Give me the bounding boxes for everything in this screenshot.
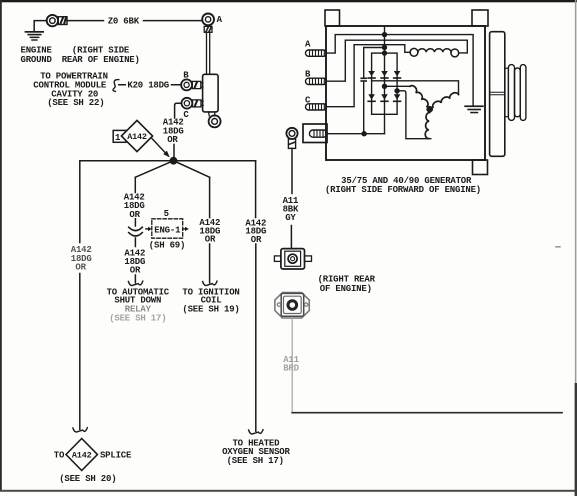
wire main horizontal bus bbox=[80, 160, 256, 162]
svg-text:(SEE SH 19): (SEE SH 19) bbox=[182, 304, 239, 314]
connector off-page ignition bbox=[203, 281, 217, 285]
generator body bbox=[326, 26, 485, 160]
svg-text:Z0 6BK: Z0 6BK bbox=[108, 16, 140, 26]
arrow splice to junction bbox=[152, 138, 166, 153]
terminal stud C bbox=[306, 104, 327, 110]
svg-text:A: A bbox=[217, 15, 223, 25]
svg-text:B: B bbox=[183, 70, 189, 80]
field winding rotor coil bbox=[418, 49, 451, 53]
terminal A eyelet bbox=[202, 14, 214, 26]
diode D2 bbox=[380, 71, 388, 79]
svg-text:BRD: BRD bbox=[283, 363, 299, 373]
pulley hub bbox=[505, 68, 509, 117]
wire Z0 6BK bbox=[67, 20, 202, 22]
stator coil upper left bbox=[410, 84, 430, 106]
eyelet terminal A11 bbox=[286, 128, 297, 149]
splice symbol A142 bottom diamond bbox=[66, 439, 97, 471]
terminal stud A bbox=[306, 50, 327, 56]
wire diagonal to ASD branch bbox=[135, 161, 173, 178]
pulley bracket bbox=[490, 32, 505, 157]
wire ground to eyelet bbox=[34, 21, 46, 31]
output terminal box bbox=[303, 124, 327, 143]
border frame bottom bbox=[0, 490, 577, 492]
border frame top bbox=[0, 0, 577, 2]
wire K20 18DG bbox=[119, 84, 181, 86]
svg-text:(SEE SH 20): (SEE SH 20) bbox=[59, 474, 116, 484]
stator winding center node bbox=[426, 106, 433, 113]
connector off-page ASD bbox=[128, 281, 142, 285]
svg-text:OR: OR bbox=[129, 210, 140, 220]
eyelet terminal B bbox=[181, 79, 203, 90]
svg-text:OR: OR bbox=[205, 235, 216, 245]
arrow right of ENG-1 bbox=[183, 228, 186, 230]
wire middle row to stator bbox=[385, 85, 410, 87]
wire B stud internal to right brush bbox=[327, 40, 468, 81]
eyelet terminal engine ground bbox=[47, 15, 67, 26]
eyelet lower of connector body bbox=[209, 115, 221, 127]
wire C stud internal to left brush bbox=[327, 45, 411, 107]
brush left bbox=[410, 48, 418, 56]
terminal stud B bbox=[306, 78, 327, 84]
wire heated oxygen sensor branch bbox=[255, 161, 257, 432]
wire diagonal to ignition branch bbox=[174, 161, 210, 178]
stator coil upper right bbox=[431, 91, 458, 107]
node dot capacitor line bbox=[382, 45, 387, 50]
artifact mark bbox=[555, 246, 561, 248]
node dot box top bbox=[382, 50, 387, 55]
crimp below terminal A bbox=[204, 26, 212, 32]
splice symbol A142 diamond bbox=[121, 120, 152, 151]
svg-text:(SEE SH 17): (SEE SH 17) bbox=[109, 313, 166, 323]
neck to lower eyelet bbox=[209, 112, 215, 116]
connector body block bbox=[203, 74, 219, 112]
svg-text:(RIGHT SIDE FORWARD OF ENGINE): (RIGHT SIDE FORWARD OF ENGINE) bbox=[325, 185, 481, 195]
diode D5 bbox=[380, 94, 388, 102]
pulley sheave 2 bbox=[515, 68, 521, 117]
generator mounting tab bottom right bbox=[473, 160, 488, 175]
diode D1 bbox=[367, 71, 375, 79]
svg-text:OR: OR bbox=[130, 265, 141, 275]
node dot stud line bbox=[361, 131, 366, 136]
connector index ENG-1 bbox=[152, 219, 183, 238]
brush right bbox=[451, 49, 459, 57]
svg-text:OF ENGINE): OF ENGINE) bbox=[320, 284, 372, 294]
svg-text:REAR OF ENGINE): REAR OF ENGINE) bbox=[62, 55, 140, 65]
svg-text:(SEE SH 22): (SEE SH 22) bbox=[47, 98, 104, 108]
svg-text:A142: A142 bbox=[72, 451, 92, 461]
connector off-page oxygen sensor bbox=[249, 430, 263, 434]
pulley sheave 3 bbox=[520, 65, 526, 121]
wire A stud internal bbox=[327, 35, 474, 106]
connector off-page A142 splice bbox=[73, 428, 87, 432]
svg-text:GROUND: GROUND bbox=[21, 55, 53, 65]
node dot middle row bbox=[382, 84, 387, 89]
wire terminal C down to splice junction bbox=[175, 103, 182, 118]
svg-text:GY: GY bbox=[285, 213, 296, 223]
svg-text:TO: TO bbox=[54, 451, 65, 461]
svg-text:OR: OR bbox=[167, 135, 178, 145]
wire ASD relay branch bbox=[134, 177, 136, 282]
node dot line1 bbox=[382, 32, 387, 37]
wire capacitor branch bbox=[364, 48, 385, 134]
node junction dot A142 bbox=[170, 157, 178, 165]
wire middle column through rectifier bbox=[384, 53, 386, 134]
svg-text:(SH 69): (SH 69) bbox=[149, 241, 185, 251]
svg-text:OR: OR bbox=[251, 235, 262, 245]
brace to K20 bbox=[113, 80, 119, 92]
wire left branch to A142 splice bbox=[79, 161, 81, 430]
wire stud terminal A to connector body bbox=[207, 32, 210, 74]
wire A11 BRD faded bbox=[291, 318, 293, 413]
svg-text:A142: A142 bbox=[127, 132, 147, 142]
svg-text:1: 1 bbox=[115, 133, 121, 143]
svg-text:C: C bbox=[183, 110, 189, 120]
eyelet terminal C bbox=[182, 98, 204, 109]
output terminal stud bbox=[310, 130, 328, 137]
stator coil lower bbox=[425, 112, 430, 138]
diode D4 bbox=[367, 94, 375, 102]
wire output stud internal bbox=[327, 133, 385, 135]
rectifier box bbox=[372, 53, 398, 114]
border frame left bbox=[0, 0, 2, 491]
arrow left of ENG-1 bbox=[146, 228, 149, 230]
ground engine ground bbox=[25, 31, 44, 41]
wire middle column upper bbox=[384, 27, 386, 53]
svg-text:K20 18DG: K20 18DG bbox=[127, 81, 169, 91]
capacitor noise suppressor bbox=[360, 78, 367, 82]
generator mounting tab top right bbox=[472, 10, 488, 26]
splice flag numeral 1 bbox=[113, 130, 126, 142]
svg-text:SPLICE: SPLICE bbox=[100, 451, 132, 461]
ground internal generator bbox=[464, 105, 483, 113]
wire A11 upper bbox=[290, 148, 293, 248]
wire ignition coil branch bbox=[209, 177, 211, 282]
svg-text:(SEE SH 17): (SEE SH 17) bbox=[227, 456, 284, 466]
connector C2 grommet bbox=[275, 293, 309, 318]
connector in-line ASD bbox=[129, 227, 143, 236]
svg-text:5: 5 bbox=[164, 209, 169, 219]
diode D6 bbox=[393, 94, 401, 102]
generator mounting tab top left bbox=[325, 10, 340, 26]
border frame right bbox=[575, 0, 577, 496]
diode D3 bbox=[393, 71, 401, 79]
pulley sheave 1 bbox=[508, 65, 514, 121]
connector C100 bulkhead bbox=[274, 249, 311, 269]
wire right column to lower stator coil bbox=[397, 91, 431, 139]
svg-text:A: A bbox=[305, 39, 311, 49]
wire rectifier bus to stator bbox=[372, 81, 459, 95]
svg-text:ENG-1: ENG-1 bbox=[154, 226, 181, 236]
wire bottom horizontal to right bbox=[292, 412, 562, 414]
node dot right column bbox=[394, 88, 399, 93]
svg-text:OR: OR bbox=[75, 263, 86, 273]
